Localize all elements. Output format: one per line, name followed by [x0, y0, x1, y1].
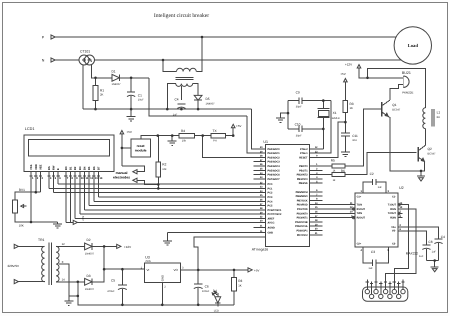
wire C9 net to XTAL1 pin — [323, 101, 332, 154]
bus line D6 — [94, 200, 255, 202]
port +5V to R3 — [344, 79, 348, 82]
ground for U1 — [166, 233, 168, 241]
svg-text:X1: X1 — [333, 111, 337, 115]
svg-text:C1-: C1- — [392, 196, 396, 199]
wire Q2 emitter to ground — [421, 161, 424, 171]
svg-text:104: 104 — [352, 139, 357, 142]
wire U1 to U2 R2OUT — [323, 217, 355, 219]
capacitor C11 — [341, 132, 350, 134]
svg-text:BC547: BC547 — [392, 109, 400, 112]
wire C4 C8 common — [426, 260, 438, 262]
svg-text:+12V: +12V — [124, 245, 131, 249]
svg-text:D0: D0 — [65, 166, 68, 170]
svg-text:PC4: PC4 — [268, 200, 273, 203]
svg-text:1N4007: 1N4007 — [85, 288, 95, 291]
wire +5V to reset box — [122, 147, 131, 149]
bus line E — [58, 183, 255, 185]
MCU U1 body — [266, 145, 310, 247]
svg-text:1uF: 1uF — [173, 114, 178, 117]
wire crystal to XTAL2 pin — [322, 129, 324, 149]
wire U1 to U2 R1OUT — [323, 208, 355, 210]
svg-text:PB2/INT2: PB2/INT2 — [297, 174, 309, 177]
wire U2 R1IN to DB9 — [386, 209, 416, 289]
ground under LCD — [57, 222, 59, 224]
wire P junction down to transformer primary — [196, 37, 202, 72]
transformer CT101 — [79, 55, 89, 65]
svg-text:PD0/RXD: PD0/RXD — [297, 204, 308, 207]
svg-text:T1IN: T1IN — [357, 204, 363, 207]
LCD1 display window — [29, 140, 110, 157]
svg-text:C4: C4 — [441, 235, 445, 239]
bus line RW — [54, 192, 255, 194]
wire rail2 to U1 pin row2 — [247, 116, 255, 153]
svg-text:12: 12 — [90, 177, 93, 180]
wire N line left — [55, 59, 79, 61]
svg-text:1uF: 1uF — [378, 186, 383, 189]
LED D4 — [217, 293, 219, 297]
svg-text:+5V: +5V — [236, 124, 241, 128]
capacitor C1 — [130, 78, 132, 92]
svg-text:U2: U2 — [399, 186, 404, 190]
svg-text:C2-: C2- — [392, 243, 396, 246]
svg-text:PD2/INT0: PD2/INT0 — [297, 212, 309, 215]
wire CT101 left lead down to sample rail — [82, 65, 84, 109]
svg-text:PA5/ADC5: PA5/ADC5 — [268, 169, 281, 172]
wire U1 to U2 T2IN — [323, 212, 355, 214]
svg-text:RS: RS — [48, 166, 51, 170]
wire P line — [55, 36, 396, 38]
bus line D5 — [89, 205, 255, 207]
port arrow2 manual — [133, 178, 137, 182]
ground under C1 — [130, 109, 132, 117]
svg-text:D1: D1 — [112, 70, 116, 74]
svg-text:470uF: 470uF — [107, 290, 115, 293]
svg-text:C10: C10 — [295, 123, 301, 127]
wire U1 VCC to +5V net — [194, 237, 265, 270]
svg-text:PC2: PC2 — [268, 192, 273, 195]
capacitor C3 loop — [363, 247, 373, 263]
svg-text:T2IN: T2IN — [357, 212, 363, 215]
resistor R5 — [323, 165, 333, 167]
svg-text:C1+: C1+ — [357, 196, 362, 199]
svg-text:PC5: PC5 — [268, 205, 273, 208]
svg-text:VS+: VS+ — [391, 226, 396, 229]
svg-text:BU21: BU21 — [402, 71, 411, 75]
port +5V after TX — [232, 128, 234, 136]
svg-text:PD1/TXD: PD1/TXD — [297, 208, 308, 211]
svg-text:PC7/TOSC2: PC7/TOSC2 — [268, 213, 282, 216]
svg-text:1N4007: 1N4007 — [112, 83, 122, 86]
wire R6 to Q2 base — [345, 152, 416, 174]
diode D1 — [112, 74, 119, 81]
svg-text:1N4007: 1N4007 — [206, 102, 216, 105]
svg-text:D2: D2 — [87, 238, 91, 242]
transistor Q1 — [381, 102, 383, 117]
svg-text:XTAL2: XTAL2 — [300, 148, 308, 151]
svg-text:1K: 1K — [350, 106, 354, 110]
bus line D3 — [80, 213, 255, 215]
ground on R4 net — [171, 136, 173, 141]
svg-text:1K: 1K — [238, 283, 242, 287]
capacitor C8 — [422, 244, 430, 246]
load circle — [394, 27, 431, 64]
svg-text:Inteligent circuit breaker: Inteligent circuit breaker — [154, 13, 209, 19]
svg-text:VSS: VSS — [30, 164, 33, 170]
transformer TR1 input port top — [14, 244, 18, 248]
diode D5 — [194, 95, 202, 100]
capacitor C6 — [197, 270, 199, 284]
ground at TR1 — [68, 296, 70, 301]
reset module box — [131, 139, 151, 157]
wire secondary left lead — [167, 84, 176, 110]
potentiometer RV1 — [12, 200, 17, 213]
svg-text:12: 12 — [62, 242, 66, 246]
svg-text:14: 14 — [99, 177, 102, 180]
wire N junction down to transformer primary — [163, 60, 177, 72]
wire sense line to D1 — [96, 77, 113, 79]
svg-text:electrodes: electrodes — [113, 176, 130, 180]
svg-text:D5: D5 — [206, 97, 210, 101]
svg-text:2K: 2K — [100, 93, 104, 97]
svg-text:14: 14 — [62, 278, 66, 282]
svg-text:TR1: TR1 — [38, 238, 45, 242]
wire rectifier to U3 — [104, 268, 144, 270]
svg-text:PKM22E: PKM22E — [402, 90, 413, 94]
resistor TX — [211, 133, 226, 137]
wire bottom tap to ground rail — [78, 282, 234, 305]
bus line D4 — [84, 209, 255, 211]
port N — [51, 58, 55, 62]
svg-text:PB4/SS: PB4/SS — [299, 182, 308, 185]
svg-text:VS-: VS- — [392, 230, 396, 233]
svg-text:Q2: Q2 — [428, 147, 432, 151]
svg-text:R4: R4 — [181, 129, 185, 133]
wire reset box top to R4 net — [141, 136, 233, 139]
svg-text:VI: VI — [147, 268, 150, 272]
wire center tap ground link — [69, 295, 78, 297]
wire D2 out to +12V port — [92, 245, 117, 247]
LCD1 outer box — [24, 135, 114, 172]
svg-text:PA7/ADC7: PA7/ADC7 — [268, 178, 281, 181]
svg-text:PA0/ADC0: PA0/ADC0 — [268, 148, 281, 151]
svg-text:PB0/T0: PB0/T0 — [299, 165, 308, 168]
wire secondary center tap — [180, 86, 182, 100]
resistor R4 — [179, 133, 195, 137]
svg-text:manual: manual — [116, 171, 128, 175]
svg-text:PC3: PC3 — [268, 196, 273, 199]
svg-text:Q1: Q1 — [392, 103, 396, 107]
svg-text:10uF: 10uF — [138, 99, 144, 102]
DB9 holes — [365, 289, 369, 293]
capacitor C5 — [121, 269, 123, 285]
wire U3 out +5V — [180, 269, 234, 271]
svg-text:LCD1: LCD1 — [25, 127, 35, 131]
wire U2 T2OUT stub — [398, 212, 403, 214]
wire CT101 right lead down — [92, 64, 96, 78]
svg-text:T2OUT: T2OUT — [388, 212, 397, 215]
svg-text:PA6/ADC6: PA6/ADC6 — [268, 174, 281, 177]
port P — [51, 35, 55, 39]
transformer T1 secondary coil — [176, 84, 193, 87]
svg-text:D1: D1 — [69, 166, 72, 170]
svg-text:C8: C8 — [428, 240, 432, 244]
wire Q1 collector to buzzer — [390, 85, 404, 101]
wire Q1 emitter down — [388, 116, 421, 170]
svg-text:10: 10 — [81, 177, 84, 180]
U1 right pin stubs — [310, 148, 323, 150]
wire U2 T1OUT to DB9 — [394, 205, 408, 289]
svg-text:PD4/OC1B: PD4/OC1B — [295, 221, 308, 224]
wire L1 top to +12V rail — [368, 69, 426, 108]
svg-text:D5: D5 — [88, 166, 91, 170]
DB9 connector J1 — [363, 287, 408, 301]
svg-text:N: N — [42, 58, 45, 62]
svg-text:PA3/ADC3: PA3/ADC3 — [268, 161, 281, 164]
svg-text:30pF: 30pF — [296, 106, 302, 109]
regulator U3 7805 — [144, 263, 180, 283]
svg-text:R6: R6 — [341, 169, 345, 173]
capacitor C9 — [288, 100, 299, 102]
svg-text:C6: C6 — [205, 284, 209, 288]
ground at C4 C8 — [434, 261, 436, 268]
wire secondary right lead — [193, 84, 199, 96]
svg-text:D4: D4 — [213, 289, 217, 293]
svg-text:PA4/ADC4: PA4/ADC4 — [268, 165, 281, 168]
svg-text:PA1/ADC1: PA1/ADC1 — [268, 152, 281, 155]
svg-text:PB6/MISO: PB6/MISO — [296, 195, 308, 198]
port +5V near reset box — [120, 131, 124, 134]
svg-text:AVCC: AVCC — [268, 221, 275, 224]
transformer TR1 input port bottom — [14, 280, 18, 284]
svg-text:+12V: +12V — [345, 62, 352, 66]
transformer T1 core — [176, 76, 194, 78]
ground at Q2 — [420, 171, 422, 176]
bus line D7 — [98, 196, 255, 198]
wire +12V to buzzer — [359, 68, 403, 78]
svg-text:LED: LED — [214, 310, 219, 313]
wire sample rail1 — [83, 108, 252, 110]
svg-text:C9: C9 — [296, 91, 300, 95]
svg-text:C5: C5 — [111, 279, 115, 283]
wire U2 V- to C8 — [398, 231, 427, 245]
svg-text:1uF: 1uF — [419, 255, 424, 258]
svg-text:PC6/TOSC1: PC6/TOSC1 — [268, 209, 282, 212]
svg-text:220V/9V: 220V/9V — [8, 264, 20, 268]
resistor R1 — [95, 78, 97, 86]
svg-text:1uF: 1uF — [368, 267, 373, 270]
svg-text:MAX232: MAX232 — [406, 252, 418, 256]
svg-text:R5: R5 — [331, 159, 335, 163]
wire secondary center tap — [59, 264, 69, 296]
port arrow1 manual — [133, 170, 137, 174]
svg-text:PD5/OC1A: PD5/OC1A — [295, 225, 308, 228]
capacitor C4 — [177, 103, 185, 105]
svg-text:T1OUT: T1OUT — [388, 204, 397, 207]
wire rail1 to U1 pin row1 — [252, 109, 256, 149]
ground at crystal — [281, 113, 289, 118]
svg-text:L1: L1 — [437, 111, 441, 115]
svg-text:PD6/ICP1: PD6/ICP1 — [296, 230, 308, 233]
svg-text:+5V: +5V — [127, 130, 132, 134]
svg-text:100uF: 100uF — [202, 290, 210, 293]
diode D3 — [85, 278, 92, 285]
wire D1 output down to rail2 — [149, 78, 247, 116]
svg-text:U3: U3 — [145, 255, 150, 259]
svg-text:VO: VO — [174, 268, 179, 272]
svg-text:R2OUT: R2OUT — [357, 216, 366, 219]
DB9 pin stubs — [366, 280, 368, 290]
bus line RS — [49, 187, 255, 189]
svg-text:module: module — [135, 148, 147, 152]
wire C3 to DB9 pin — [375, 266, 377, 288]
svg-text:U1: U1 — [263, 140, 268, 144]
svg-text:PB3/OC0: PB3/OC0 — [297, 178, 308, 181]
svg-text:C1: C1 — [138, 93, 142, 97]
svg-text:Load: Load — [408, 43, 419, 48]
svg-text:GND: GND — [161, 275, 165, 281]
svg-text:PB1/T1: PB1/T1 — [299, 169, 308, 172]
svg-text:10k: 10k — [162, 168, 167, 171]
wire arrow1 to +5V — [122, 166, 144, 172]
svg-text:R2: R2 — [162, 162, 166, 166]
svg-text:BC547: BC547 — [428, 153, 436, 156]
svg-text:8H: 8H — [437, 116, 440, 119]
wire secondary bottom tap — [56, 281, 85, 283]
svg-text:C4: C4 — [175, 98, 179, 102]
svg-text:10k: 10k — [182, 139, 187, 142]
svg-text:R1IN: R1IN — [390, 208, 396, 211]
diode D2 — [85, 243, 92, 250]
svg-text:D6: D6 — [93, 166, 96, 170]
wire R5 to Q1 base — [345, 109, 381, 166]
transformer TR1 core — [48, 243, 50, 286]
svg-text:PB7/SCK: PB7/SCK — [297, 199, 308, 202]
svg-text:+5V: +5V — [254, 268, 259, 272]
wire C9 C10 common left — [287, 101, 289, 129]
svg-text:30pF: 30pF — [296, 135, 302, 138]
svg-text:C11: C11 — [352, 134, 358, 138]
svg-text:VDD: VDD — [35, 164, 38, 170]
transformer TR1 primary — [42, 246, 45, 281]
LCD pin stubs and ticks — [30, 172, 32, 222]
wire VSS to ground — [31, 221, 58, 223]
U1 left pin stubs — [254, 148, 266, 150]
svg-text:PD3/INT1: PD3/INT1 — [297, 217, 309, 220]
ground under C11 — [341, 151, 350, 153]
svg-text:13: 13 — [95, 177, 98, 180]
port +12V arrow — [357, 65, 361, 68]
svg-text:D3: D3 — [87, 274, 91, 278]
svg-text:PD7/OC2: PD7/OC2 — [297, 234, 308, 237]
wire Q2 collector to L1 — [424, 129, 426, 146]
svg-text:+5V: +5V — [340, 72, 345, 76]
svg-text:ATmega16: ATmega16 — [252, 248, 268, 252]
svg-text:R3: R3 — [238, 279, 242, 283]
svg-text:GND: GND — [268, 232, 274, 235]
bus line +5V — [66, 221, 73, 223]
svg-text:PA2/ADC2: PA2/ADC2 — [268, 156, 281, 159]
svg-text:12MHz: 12MHz — [332, 117, 341, 120]
transistor Q2 — [417, 147, 419, 162]
svg-text:D7: D7 — [97, 166, 100, 170]
svg-text:R1OUT: R1OUT — [357, 208, 366, 211]
wire U2 V+ to C4 — [398, 227, 439, 239]
svg-text:D3: D3 — [79, 166, 82, 170]
svg-text:AGND: AGND — [268, 227, 276, 230]
svg-text:VEE: VEE — [39, 164, 42, 170]
svg-text:RV1: RV1 — [19, 188, 25, 192]
svg-text:E: E — [57, 168, 60, 170]
inductor L1 relay coil — [423, 108, 426, 129]
svg-text:7805: 7805 — [145, 260, 151, 263]
svg-text:C2: C2 — [370, 172, 374, 176]
svg-text:PC0: PC0 — [268, 183, 273, 186]
wire secondary top tap — [56, 245, 85, 247]
svg-text:D4: D4 — [83, 166, 86, 170]
RV1 wiper — [21, 205, 27, 207]
capacitor C10 — [288, 128, 299, 130]
junction dots — [201, 36, 204, 39]
wire U2 R2IN stub — [398, 217, 403, 219]
svg-text:D2: D2 — [74, 166, 77, 170]
resistor R2 — [157, 136, 159, 162]
svg-text:10K: 10K — [19, 224, 24, 228]
svg-text:1N4007: 1N4007 — [85, 252, 95, 255]
svg-text:PH: PH — [213, 139, 217, 142]
svg-text:R2IN: R2IN — [390, 216, 396, 219]
IC U2 MAX232 body — [355, 193, 398, 247]
wire U1 to U2 T1IN — [323, 204, 355, 206]
wire N line right — [95, 59, 402, 61]
svg-text:RESET: RESET — [299, 156, 308, 159]
wire arrow2 to R2 bottom — [137, 180, 158, 184]
transformer T1 primary coil — [177, 68, 197, 71]
resistor R6 — [323, 174, 333, 176]
svg-text:PC1: PC1 — [268, 187, 273, 190]
capacitor C4 — [434, 238, 442, 240]
resistor R3 — [343, 101, 348, 113]
wire sense branch down to U1 row3 — [203, 136, 255, 158]
wire U1 GND pin to ground — [167, 232, 255, 234]
svg-text:PB5/MOSI: PB5/MOSI — [296, 191, 308, 194]
svg-text:+5V: +5V — [81, 216, 85, 221]
svg-text:11: 11 — [85, 177, 88, 180]
wire reset net — [323, 122, 346, 157]
resistor R3 pullup — [233, 270, 235, 278]
bus line D2 — [75, 218, 255, 220]
svg-text:1uF: 1uF — [432, 250, 437, 253]
svg-text:CT101: CT101 — [80, 50, 90, 54]
crystal X1 — [322, 101, 324, 109]
transformer TR1 secondary — [56, 246, 59, 281]
svg-text:XTAL1: XTAL1 — [300, 152, 308, 155]
svg-text:reset: reset — [137, 144, 146, 148]
capacitor C2 loop — [363, 182, 373, 193]
svg-text:C3: C3 — [371, 250, 375, 254]
svg-text:RW: RW — [53, 165, 56, 170]
buzzer BU21 — [402, 76, 404, 87]
svg-text:C2+: C2+ — [357, 243, 362, 246]
svg-text:AREF: AREF — [268, 218, 275, 221]
wire D3 out joining D2 — [92, 246, 104, 281]
